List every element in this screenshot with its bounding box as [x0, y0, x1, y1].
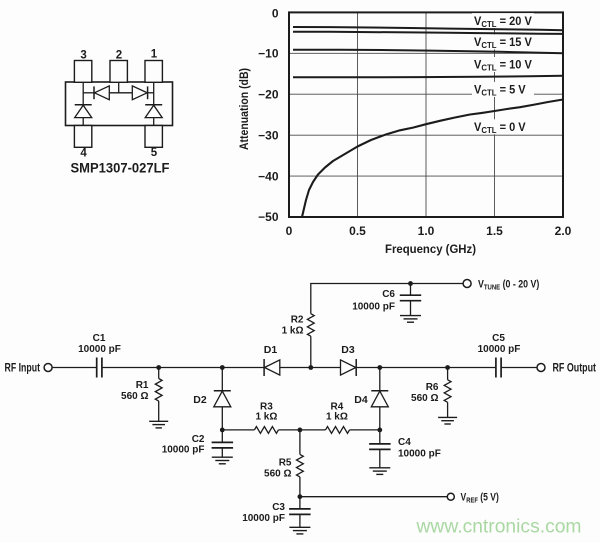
resistor R1 [155, 368, 162, 422]
svg-text:RF Input: RF Input [5, 363, 41, 375]
svg-text:0: 0 [286, 224, 293, 238]
ground R6 [438, 417, 457, 424]
package body [66, 82, 173, 126]
wire node D to node E [380, 367, 448, 369]
node I [377, 428, 382, 433]
curve VCTL = 10 V [293, 50, 563, 54]
resistor R4 [326, 427, 350, 434]
svg-text:C5: C5 [492, 333, 505, 344]
svg-text:10000 pF: 10000 pF [398, 449, 441, 460]
capacitor C3 [289, 497, 311, 528]
pin 2 number [116, 50, 122, 62]
wire R2 to node F [311, 284, 411, 314]
label C3 10000 pF [242, 502, 285, 524]
svg-text:2: 2 [116, 50, 122, 62]
wire node J to VREF terminal [300, 496, 448, 498]
wire R4 to node I [350, 429, 380, 431]
label C2 10000 pF [162, 434, 205, 456]
svg-text:1 kΩ: 1 kΩ [255, 412, 277, 423]
package wire top row [83, 92, 154, 94]
label C6 10000 pF [352, 289, 395, 313]
label C4 10000 pF [398, 437, 441, 460]
svg-text:C2: C2 [192, 434, 205, 445]
node G [220, 428, 225, 433]
wire node A to node B [159, 367, 223, 369]
node A [156, 365, 161, 370]
svg-text:10000 pF: 10000 pF [242, 513, 285, 524]
curve label VCTL = 15 V [472, 34, 534, 50]
resistor R6 [444, 368, 451, 418]
package pin 5 [145, 126, 162, 148]
wire node E to C5 [448, 367, 496, 369]
svg-text:4: 4 [80, 148, 87, 160]
VTUNE terminal [463, 280, 471, 288]
resistor R3 [254, 427, 278, 434]
package diode bottom-left [75, 105, 92, 126]
chart gridlines [289, 12, 563, 217]
svg-text:RF Output: RF Output [553, 363, 597, 375]
package wire pin3 column [82, 82, 84, 105]
svg-text:1: 1 [151, 49, 158, 61]
diode D3 [341, 359, 357, 376]
wire D3 to node D [356, 367, 380, 369]
wire node H to R4 [300, 429, 326, 431]
node D [377, 365, 382, 370]
RF Output terminal [537, 364, 545, 372]
wire C1 to node A [102, 367, 159, 369]
svg-text:560 Ω: 560 Ω [121, 391, 148, 402]
diode D4 [371, 368, 388, 430]
wire node B to D1 [222, 367, 264, 369]
diode D1 [264, 359, 280, 376]
resistor R2 [307, 314, 314, 337]
package wire pin2 stub [118, 82, 120, 93]
resistor R5 [297, 430, 304, 497]
node F [408, 281, 413, 286]
wire C5 to RF Output [501, 367, 537, 369]
curve label VCTL = 0 V [472, 119, 534, 135]
curve label VCTL = 20 V [472, 13, 534, 29]
package pin 4 [74, 126, 91, 148]
svg-text:10000 pF: 10000 pF [352, 302, 395, 313]
capacitor C2 [212, 430, 234, 457]
svg-text:C3: C3 [272, 502, 285, 513]
svg-text:R1: R1 [136, 380, 149, 391]
ground C3 [289, 527, 310, 534]
pin 5 number [151, 147, 158, 159]
svg-text:3: 3 [80, 50, 86, 62]
ground C6 [400, 316, 421, 323]
x-axis tick labels [286, 224, 572, 238]
wire node C to R2 [310, 336, 312, 367]
svg-text:−40: −40 [258, 169, 279, 183]
svg-text:−20: −20 [258, 87, 279, 101]
svg-text:1 kΩ: 1 kΩ [326, 412, 348, 423]
svg-text:VREF (5 V): VREF (5 V) [461, 492, 499, 505]
node J [298, 494, 303, 499]
x-axis title [385, 242, 476, 256]
curve VCTL = 5 V [293, 76, 563, 78]
ground C2 [212, 457, 233, 464]
watermark [416, 516, 582, 538]
wire node C to D3 [311, 367, 341, 369]
label R3 1 kohm [255, 401, 277, 422]
capacitor C4 [369, 430, 391, 468]
svg-text:D3: D3 [341, 344, 355, 356]
y-axis tick labels [258, 7, 279, 225]
wire R3 to node H [278, 429, 300, 431]
curve VCTL = 20 V [293, 27, 563, 30]
svg-text:D2: D2 [193, 394, 207, 406]
RF Input terminal [44, 364, 52, 372]
svg-text:C4: C4 [398, 437, 411, 448]
svg-text:C6: C6 [382, 289, 395, 300]
curve VCTL = 0 V [302, 100, 563, 218]
svg-text:10000 pF: 10000 pF [162, 445, 205, 456]
svg-text:1 kΩ: 1 kΩ [282, 326, 304, 337]
svg-text:C1: C1 [93, 333, 106, 344]
svg-text:R5: R5 [279, 458, 292, 469]
svg-text:−10: −10 [258, 47, 279, 61]
diode D2 [214, 368, 231, 430]
svg-text:0: 0 [272, 7, 279, 21]
capacitor C5 [496, 358, 501, 378]
svg-text:0.5: 0.5 [349, 224, 366, 238]
svg-text:10000 pF: 10000 pF [78, 344, 121, 355]
chart plot border [289, 12, 563, 217]
package pin 3 [74, 61, 91, 83]
svg-text:VTUNE (0 - 20 V): VTUNE (0 - 20 V) [478, 279, 539, 292]
label C1 10000 pF [78, 333, 121, 355]
label D4 [354, 394, 368, 406]
label D1 [264, 344, 278, 356]
svg-text:−30: −30 [258, 128, 279, 142]
pin 1 number [151, 49, 158, 61]
pin 4 number [80, 148, 87, 160]
RF Output label [553, 363, 597, 375]
package pin 2 [110, 61, 127, 83]
wire node G to R3 [222, 429, 254, 431]
svg-text:R2: R2 [291, 315, 304, 326]
VREF label [461, 492, 499, 505]
svg-text:560 Ω: 560 Ω [264, 469, 291, 480]
ground C4 [369, 468, 390, 475]
VTUNE label [478, 279, 539, 292]
pin 3 number [80, 50, 86, 62]
svg-text:Attenuation (dB): Attenuation (dB) [237, 68, 251, 150]
curve label VCTL = 5 V [472, 82, 534, 98]
curve VCTL = 15 V [293, 32, 563, 34]
svg-text:1.5: 1.5 [486, 224, 503, 238]
label R2 1 kohm [282, 315, 304, 337]
capacitor C1 [97, 358, 102, 378]
RF Input label [5, 363, 41, 375]
svg-text:Frequency (GHz): Frequency (GHz) [385, 242, 476, 256]
package diode top-right [132, 86, 147, 100]
package diode bottom-right [145, 105, 162, 126]
node H [298, 428, 303, 433]
package diode top-left [94, 86, 109, 100]
svg-text:2.0: 2.0 [555, 224, 572, 238]
svg-text:5: 5 [151, 147, 158, 159]
svg-text:SMP1307-027LF: SMP1307-027LF [71, 161, 170, 176]
label C5 10000 pF [478, 333, 521, 355]
node E [445, 365, 450, 370]
ground R1 [149, 421, 168, 428]
node B [220, 365, 225, 370]
curve label VCTL = 10 V [472, 57, 534, 73]
svg-text:1.0: 1.0 [418, 224, 435, 238]
wire D1 to node C [280, 367, 311, 369]
svg-text:D1: D1 [264, 344, 278, 356]
label D2 [193, 394, 207, 406]
wire RF Input to C1 [52, 367, 96, 369]
label R4 1 kohm [326, 401, 348, 422]
package pin 1 [145, 61, 162, 83]
y-axis title [237, 68, 251, 150]
svg-text:−50: −50 [258, 210, 279, 224]
wire node F to VTUNE terminal [411, 283, 464, 285]
package wire pin1 column [153, 82, 155, 105]
svg-text:D4: D4 [354, 394, 368, 406]
package part number label [71, 161, 170, 176]
svg-text:10000 pF: 10000 pF [478, 344, 521, 355]
svg-text:560 Ω: 560 Ω [411, 393, 438, 404]
node C [308, 365, 313, 370]
label R5 560 ohm [264, 458, 292, 480]
svg-text:www.cntronics.com: www.cntronics.com [416, 516, 582, 538]
label R1 560 ohm [121, 380, 149, 402]
label D3 [341, 344, 355, 356]
capacitor C6 [400, 284, 421, 316]
svg-text:R6: R6 [426, 382, 439, 393]
label R6 560 ohm [411, 382, 439, 404]
VREF terminal [447, 493, 454, 500]
